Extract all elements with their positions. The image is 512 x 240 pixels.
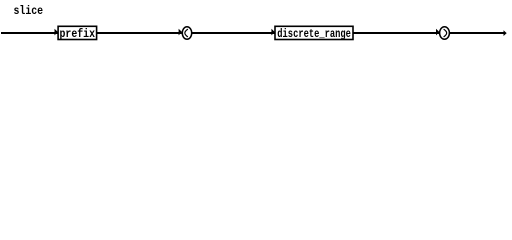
svg-text:prefix: prefix xyxy=(60,28,96,41)
svg-text:discrete_range: discrete_range xyxy=(277,28,351,41)
svg-text:slice: slice xyxy=(14,4,44,18)
